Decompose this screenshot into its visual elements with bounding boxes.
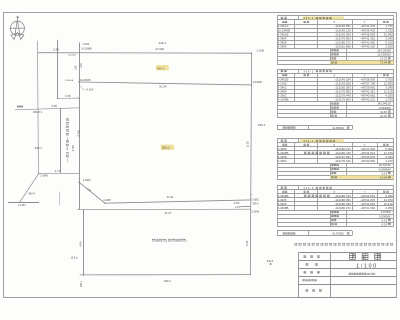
svg-text:3.790: 3.790 [72, 144, 75, 151]
svg-text:399-2: 399-2 [162, 146, 170, 150]
svg-text:2-3362: 2-3362 [251, 199, 259, 202]
svg-text:10.5 m: 10.5 m [71, 257, 78, 260]
svg-text:2-3348: 2-3348 [251, 210, 259, 213]
svg-text:340-3: 340-3 [267, 260, 274, 263]
svg-text:1.80: 1.80 [74, 65, 77, 70]
svg-text:6.141: 6.141 [78, 130, 81, 137]
west short stub at x=37.5 upper [37, 41, 40, 174]
parcel 399-2 north boundary with dim 31.94 [79, 82, 252, 85]
svg-text:2-3362: 2-3362 [278, 159, 287, 163]
strip 390-1 bottom edge [80, 274, 251, 276]
svg-text:399-3: 399-3 [303, 69, 314, 73]
title block labels [304, 255, 307, 257]
coordinate table parcel 399-3 [277, 69, 394, 71]
svg-text:1.370: 1.370 [235, 207, 241, 209]
dim line 2.35 [58, 97, 79, 99]
note old stone wall [152, 239, 155, 242]
dim 3.790 rotated [72, 144, 75, 151]
svg-text:2.35: 2.35 [65, 94, 71, 98]
svg-text:2-3401B: 2-3401B [253, 81, 262, 84]
svg-text:-113178.440: -113178.440 [334, 159, 351, 163]
svg-text:14.94: 14.94 [380, 175, 388, 179]
corner point marks [19, 53, 252, 276]
svg-text:2-3401A: 2-3401A [65, 79, 74, 82]
svg-text:6.45: 6.45 [246, 240, 249, 245]
svg-text:11.16: 11.16 [246, 141, 250, 148]
svg-text:450-4: 450-4 [28, 191, 35, 195]
svg-text:-113180.271: -113180.271 [334, 206, 351, 210]
road right edge (long vertical) [79, 42, 81, 209]
parcel label 399-3 highlighted [156, 65, 169, 70]
svg-text:390-1: 390-1 [80, 280, 83, 287]
title block values [350, 254, 356, 260]
tiny mark left [17, 106, 19, 108]
svg-text:31.94: 31.94 [159, 85, 167, 89]
road corner diagonal 3.96 [79, 182, 105, 203]
svg-text:2-3946: 2-3946 [40, 175, 48, 178]
parcel 390-1 rotated [80, 280, 83, 287]
tick 1.370 [241, 206, 250, 208]
svg-text:41.97: 41.97 [380, 114, 388, 118]
svg-text:5.38: 5.38 [53, 47, 59, 51]
svg-text:): ) [186, 239, 187, 243]
svg-text:229-1: 229-1 [159, 41, 167, 45]
svg-text:10-2340B: 10-2340B [80, 79, 91, 82]
svg-text:340-3: 340-3 [303, 186, 314, 190]
dim line 4.73 [39, 172, 80, 174]
north arrow compass [10, 16, 26, 40]
title block [298, 252, 396, 254]
svg-text:-49741.021: -49741.021 [360, 98, 375, 102]
svg-text:-0.360: -0.360 [82, 43, 89, 46]
diagonal boundary to point 2-1463 [20, 174, 39, 202]
svg-text:-49741.962: -49741.962 [360, 206, 375, 210]
parcel 399-2 south boundary 11.91 [105, 200, 251, 203]
svg-text:10-2348B: 10-2348B [81, 48, 92, 51]
svg-text:2-3408B: 2-3408B [278, 206, 289, 210]
svg-text:2-1340: 2-1340 [257, 49, 265, 52]
road left edge mid [60, 108, 62, 173]
svg-text:41.95000: 41.95000 [332, 126, 344, 130]
dim 11.16 rotated [246, 141, 250, 148]
svg-text:-0.100: -0.100 [86, 88, 94, 92]
svg-text:4-3405: 4-3405 [103, 199, 111, 202]
coordinate table parcel 399-2 [277, 15, 394, 17]
total area bar lower [277, 230, 352, 232]
svg-text:6.45: 6.45 [80, 241, 83, 246]
total area bar upper [277, 125, 352, 127]
svg-text:1/100: 1/100 [356, 263, 378, 269]
svg-text:2-3408: 2-3408 [83, 179, 91, 182]
svg-text:(: ( [67, 136, 69, 140]
dim 6.45 west rotated [80, 241, 83, 246]
boundary line north long (parcel 229-1 south edge) [38, 52, 252, 55]
coordinate table parcel 349-1 [277, 138, 394, 140]
dim 6.45 east rotated [246, 240, 249, 245]
dim line 41.07 [77, 208, 250, 211]
svg-text:2-3406: 2-3406 [278, 44, 287, 48]
parcel label 399-2 highlighted [161, 145, 174, 150]
strip 390-1 west edge [83, 210, 85, 275]
svg-text:399-2: 399-2 [303, 16, 314, 20]
svg-text:359: 359 [366, 272, 371, 276]
svg-text:349-1: 349-1 [303, 139, 314, 143]
note sentence [294, 243, 297, 246]
dim 1.80 rotated [74, 65, 77, 70]
svg-text:452-1: 452-1 [35, 146, 43, 150]
svg-text:2: 2 [374, 272, 376, 276]
svg-text:2-1463: 2-1463 [18, 204, 26, 207]
svg-text:390-1: 390-1 [164, 279, 172, 283]
faint road edge lower [59, 192, 61, 206]
svg-text:0.19: 0.19 [382, 222, 388, 226]
dim 3.96 rotated [86, 187, 92, 193]
svg-text:1.60: 1.60 [80, 63, 83, 68]
svg-text:21.930: 21.930 [155, 47, 164, 51]
dim line 3.35 [15, 108, 79, 110]
road left edge upper [57, 40, 59, 99]
svg-text:399-3: 399-3 [157, 67, 165, 71]
svg-text:340-3: 340-3 [252, 203, 259, 206]
svg-text:m: m [66, 151, 69, 155]
svg-text:10-234B: 10-234B [68, 54, 76, 56]
svg-text:73.94: 73.94 [380, 61, 388, 65]
svg-text:-113179.803: -113179.803 [334, 98, 351, 102]
dim 6.141 rotated [78, 130, 81, 137]
svg-text:4.73: 4.73 [55, 169, 61, 173]
leader -0.100 [80, 86, 85, 90]
road name vertical text [66, 118, 69, 120]
svg-text:2-1340B: 2-1340B [278, 98, 289, 102]
svg-text:(: ( [166, 239, 168, 243]
svg-text:-49740.662: -49740.662 [360, 159, 375, 163]
dim 1.60 rotated [80, 63, 83, 68]
west bottom line [8, 202, 39, 204]
svg-text:41.97000: 41.97000 [332, 232, 344, 236]
coordinate table parcel 340-3 [277, 185, 394, 187]
svg-text:349-1: 349-1 [258, 123, 266, 127]
svg-text:41.07: 41.07 [165, 211, 172, 215]
svg-text:11.91: 11.91 [167, 195, 174, 199]
svg-text:): ) [67, 158, 68, 162]
svg-text:3.35: 3.35 [51, 104, 57, 108]
svg-text:-49740.118: -49740.118 [360, 44, 375, 48]
svg-text:499-97-1: 499-97-1 [33, 111, 43, 114]
east boundary vertical [250, 53, 251, 275]
svg-text:4.250: 4.250 [234, 203, 240, 205]
svg-text:-113181.890: -113181.890 [334, 44, 351, 48]
